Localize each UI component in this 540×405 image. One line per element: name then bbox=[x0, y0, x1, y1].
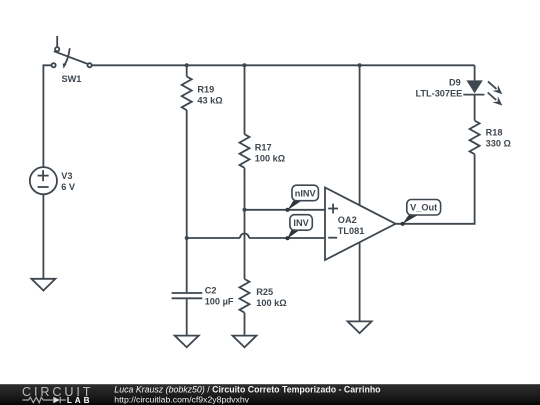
label SW1 bbox=[62, 74, 82, 84]
op-amp OA2 bbox=[325, 188, 396, 261]
svg-text:R19: R19 bbox=[197, 85, 214, 95]
ground below V3 bbox=[31, 279, 55, 291]
ground below op-amp bbox=[348, 321, 372, 333]
svg-text:100 kΩ: 100 kΩ bbox=[256, 298, 286, 308]
junction top rail R17 bbox=[243, 63, 247, 67]
resistor R19 bbox=[182, 77, 192, 111]
wire op-amp positive supply bbox=[359, 65, 361, 205]
label D9 LTL-307EE bbox=[415, 78, 462, 99]
junction top rail op-amp supply bbox=[358, 63, 362, 67]
svg-text:INV: INV bbox=[293, 218, 309, 228]
label OA2 TL081 bbox=[338, 215, 365, 236]
wire left branch to V3 bbox=[43, 65, 51, 167]
svg-text:6 V: 6 V bbox=[61, 182, 76, 192]
svg-text:43 kΩ: 43 kΩ bbox=[197, 95, 222, 105]
svg-text:R25: R25 bbox=[256, 287, 273, 297]
wire R18 top to LED bbox=[474, 96, 476, 121]
wire R19 bottom to C2 bbox=[186, 110, 188, 292]
label R19 bbox=[197, 85, 222, 106]
svg-text:LAB: LAB bbox=[67, 396, 93, 405]
svg-text:100 kΩ: 100 kΩ bbox=[255, 153, 285, 163]
svg-text:LTL-307EE: LTL-307EE bbox=[415, 89, 462, 99]
node flag INV bbox=[285, 215, 312, 241]
resistor R18 bbox=[470, 121, 480, 155]
svg-text:V3: V3 bbox=[61, 171, 72, 181]
CircuitLab logo resistor-diode glyph bbox=[22, 397, 66, 403]
wire C2 to ground bbox=[186, 299, 188, 336]
svg-text:330 Ω: 330 Ω bbox=[486, 138, 511, 148]
svg-text:100 µF: 100 µF bbox=[205, 296, 234, 306]
label C2 bbox=[205, 286, 234, 307]
svg-text:TL081: TL081 bbox=[338, 226, 365, 236]
wire top rail bbox=[92, 64, 475, 66]
capacitor C2 bbox=[172, 293, 203, 298]
ground below C2 bbox=[175, 336, 199, 348]
svg-text:C2: C2 bbox=[205, 286, 217, 296]
wire R25 to ground bbox=[244, 313, 246, 336]
LED D9 bbox=[463, 80, 502, 105]
wire op-amp output to right column bbox=[396, 154, 475, 224]
resistor R17 bbox=[240, 134, 250, 168]
ground below R25 bbox=[233, 336, 257, 348]
svg-text:V_Out: V_Out bbox=[410, 203, 437, 213]
svg-text:R17: R17 bbox=[255, 142, 272, 152]
voltage source V3 bbox=[30, 167, 57, 194]
svg-text:D9: D9 bbox=[449, 78, 461, 88]
svg-text:SW1: SW1 bbox=[62, 74, 82, 84]
junction R19 inverting bbox=[185, 236, 189, 240]
node flag V_Out bbox=[401, 200, 441, 226]
label R17 bbox=[255, 142, 285, 163]
svg-text:http://circuitlab.com/cf9x2y8p: http://circuitlab.com/cf9x2y8pdvxhv bbox=[114, 394, 249, 404]
label V3 bbox=[61, 171, 76, 192]
footer bar bbox=[0, 384, 540, 405]
wire noninverting input bbox=[245, 209, 326, 211]
wire R17 top stub bbox=[244, 65, 246, 134]
wire LED anode to rail bbox=[474, 65, 476, 80]
wire R17 bottom through node to R25 bbox=[244, 168, 246, 279]
wire V3 to ground bbox=[42, 194, 44, 278]
junction top rail R19 bbox=[185, 63, 189, 67]
resistor R25 bbox=[240, 279, 250, 313]
svg-text:Luca Krausz (bobkz50) / Circui: Luca Krausz (bobkz50) / Circuito Correto… bbox=[114, 385, 381, 395]
switch SW1 bbox=[52, 36, 92, 69]
junction R17 noninverting bbox=[243, 208, 247, 212]
wire R19 top stub bbox=[186, 65, 188, 76]
footer attribution line bbox=[114, 385, 381, 405]
wire hop over R17 column bbox=[240, 234, 249, 239]
wire op-amp negative supply to ground bbox=[359, 242, 361, 321]
label R18 bbox=[486, 127, 511, 148]
svg-text:R18: R18 bbox=[486, 127, 503, 137]
wire inverting input right segment bbox=[249, 237, 325, 239]
wire inverting input left segment bbox=[187, 237, 240, 239]
svg-text:OA2: OA2 bbox=[338, 215, 357, 225]
svg-text:nINV: nINV bbox=[295, 188, 317, 198]
node flag nINV bbox=[285, 185, 318, 212]
label R25 bbox=[256, 287, 286, 308]
CircuitLab logo wordmark bbox=[22, 385, 93, 405]
